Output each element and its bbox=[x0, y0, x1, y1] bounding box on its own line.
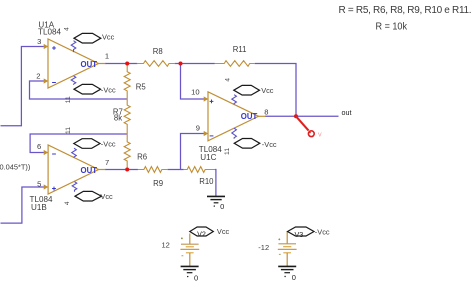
wire from left edge to U1A pin 3 bbox=[1, 47, 44, 126]
resistor R8 bbox=[137, 61, 175, 67]
svg-text:R10: R10 bbox=[199, 177, 214, 186]
svg-text:-Vcc: -Vcc bbox=[101, 85, 116, 94]
power symbol Vcc at U1B bbox=[75, 191, 102, 201]
junction node at R8/R11 bbox=[179, 62, 183, 66]
svg-text:out: out bbox=[342, 108, 352, 117]
svg-text:R8: R8 bbox=[153, 47, 163, 56]
op-amp U1B V+ pin squiggle bbox=[72, 182, 77, 192]
svg-text:0: 0 bbox=[292, 273, 296, 282]
svg-text:V: V bbox=[318, 132, 322, 138]
svg-text:R9: R9 bbox=[153, 179, 163, 188]
svg-text:0: 0 bbox=[194, 273, 198, 282]
wire tee up to U1C pin 9 bbox=[181, 134, 204, 170]
svg-text:U1B: U1B bbox=[31, 203, 47, 212]
svg-text:11: 11 bbox=[224, 148, 231, 155]
svg-text:7: 7 bbox=[105, 158, 109, 167]
wire R11 to U1C output node bbox=[255, 64, 296, 117]
wire U1A output to R8 bbox=[105, 63, 137, 65]
resistor R6 bbox=[124, 134, 130, 170]
power symbol Vcc at U1C bbox=[234, 85, 260, 95]
svg-text:-Vcc: -Vcc bbox=[101, 140, 116, 149]
junction node D bbox=[125, 168, 129, 172]
wire U1B output to node D bbox=[105, 169, 138, 171]
op-amp U1A V- pin squiggle bbox=[71, 76, 76, 85]
svg-text:3: 3 bbox=[37, 37, 41, 46]
ground 0 at V3 bbox=[278, 266, 296, 277]
svg-text:8k: 8k bbox=[114, 114, 122, 123]
junction node A bbox=[125, 62, 129, 66]
power symbol -Vcc at U1C bbox=[234, 139, 260, 149]
svg-text:R5: R5 bbox=[136, 82, 147, 91]
svg-text:OUT: OUT bbox=[81, 166, 98, 175]
svg-text:0.045*T)): 0.045*T)) bbox=[0, 163, 30, 172]
ground 0 at R10 bbox=[207, 196, 225, 206]
svg-text:0: 0 bbox=[220, 202, 224, 211]
svg-text:-Vcc: -Vcc bbox=[315, 228, 330, 237]
svg-text:6: 6 bbox=[37, 142, 41, 151]
svg-text:4: 4 bbox=[64, 27, 71, 31]
ground 0 at V2 bbox=[181, 266, 199, 277]
svg-text:Vcc: Vcc bbox=[100, 192, 113, 201]
wire R7 bottom to U1B pin 6 bbox=[30, 134, 127, 153]
svg-text:-Vcc: -Vcc bbox=[262, 140, 277, 149]
wire U1A pin 2 feedback to node B bbox=[30, 81, 128, 99]
svg-text:R = 10k: R = 10k bbox=[376, 22, 408, 33]
svg-text:OUT: OUT bbox=[241, 112, 258, 121]
svg-text:R11: R11 bbox=[233, 45, 247, 54]
power symbol Vcc at V2 bbox=[190, 227, 214, 236]
power symbol -Vcc at V3 bbox=[288, 227, 315, 236]
resistor R7 bbox=[124, 99, 130, 134]
op-amp U1C bbox=[204, 92, 266, 141]
power symbol Vcc at U1A bbox=[74, 33, 101, 43]
power symbol -Vcc at U1A bbox=[74, 84, 101, 94]
dc source V3 bbox=[278, 232, 297, 267]
op-amp U1A bbox=[44, 39, 106, 88]
resistor R10 bbox=[183, 167, 215, 173]
svg-text:R = R5, R6, R8, R9, R10 e R11.: R = R5, R6, R8, R9, R10 e R11. bbox=[339, 5, 472, 16]
wire R9 to R10 through tee bbox=[168, 169, 184, 171]
op-amp U1A V+ pin squiggle bbox=[71, 41, 76, 52]
wire U1B pin 5 to left edge bbox=[1, 187, 44, 223]
power symbol -Vcc at U1B bbox=[74, 139, 100, 149]
dc source V2 bbox=[180, 234, 199, 267]
svg-text:Vcc: Vcc bbox=[217, 227, 230, 236]
wire R10 to ground bbox=[215, 170, 216, 196]
svg-text:8: 8 bbox=[264, 107, 268, 116]
op-amp U1B bbox=[44, 145, 106, 194]
svg-text:1: 1 bbox=[105, 52, 109, 61]
svg-text:9: 9 bbox=[196, 123, 200, 132]
svg-text:V3: V3 bbox=[295, 230, 304, 239]
svg-text:-12: -12 bbox=[258, 243, 269, 252]
resistor R11 bbox=[215, 61, 255, 67]
resistor R5 bbox=[124, 64, 130, 99]
svg-text:R6: R6 bbox=[137, 153, 147, 162]
resistor R9 bbox=[138, 167, 168, 173]
op-amp U1C V- pin squiggle bbox=[232, 128, 237, 139]
svg-text:11: 11 bbox=[65, 127, 72, 134]
svg-text:OUT: OUT bbox=[81, 60, 98, 69]
svg-text:12: 12 bbox=[162, 241, 170, 250]
junction node out bbox=[294, 114, 298, 118]
svg-text:11: 11 bbox=[65, 96, 72, 103]
svg-text:V2: V2 bbox=[197, 230, 206, 239]
svg-text:U1C: U1C bbox=[200, 153, 216, 162]
svg-text:TL084: TL084 bbox=[38, 28, 61, 37]
svg-text:10: 10 bbox=[191, 87, 199, 96]
wire node to U1C pin 10 bbox=[181, 64, 204, 100]
voltage probe marker at out bbox=[296, 116, 314, 136]
svg-text:Vcc: Vcc bbox=[261, 86, 274, 95]
svg-text:4: 4 bbox=[225, 78, 232, 82]
wire R8 to R11 through node bbox=[175, 63, 215, 65]
op-amp U1B V- pin squiggle bbox=[72, 148, 77, 158]
svg-text:5: 5 bbox=[37, 179, 41, 188]
svg-text:Vcc: Vcc bbox=[102, 33, 115, 42]
svg-text:2: 2 bbox=[36, 72, 40, 81]
wire U1C output to out bbox=[265, 115, 339, 117]
op-amp U1C V+ pin squiggle bbox=[232, 95, 237, 105]
svg-text:4: 4 bbox=[64, 201, 71, 205]
